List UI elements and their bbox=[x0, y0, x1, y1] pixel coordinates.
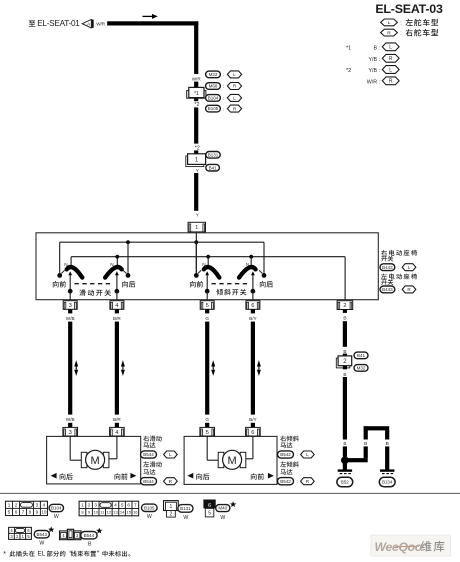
footer oval B543 bbox=[34, 526, 54, 546]
ground G1 bbox=[338, 471, 352, 474]
wire stub below pin 5 bbox=[205, 309, 209, 313]
wire stub above inline connector 1 bbox=[194, 150, 198, 154]
ground junction bbox=[341, 456, 349, 464]
pin 5 of power seat switch bbox=[200, 301, 214, 310]
wire color label B (below pin2) bbox=[343, 315, 346, 320]
wire color label B/Y (top) bbox=[249, 316, 257, 321]
slide motor symbol M bbox=[86, 450, 105, 469]
svg-text:14: 14 bbox=[120, 510, 125, 515]
footnote asterisk bbox=[3, 551, 130, 558]
slide motor pin 3 bbox=[63, 427, 78, 436]
junction on ground bus at pole4 bbox=[249, 255, 253, 259]
slide motor internal wire right bbox=[108, 436, 117, 458]
wire break arrows (G) bbox=[211, 360, 215, 376]
wire label *2 (upper) bbox=[195, 102, 200, 108]
badge R for left slide motor bbox=[164, 478, 178, 485]
wire color label B/R (bottom) bbox=[113, 417, 121, 422]
slide motor internal wire left bbox=[70, 436, 82, 460]
switch slide-back rocker arc bbox=[105, 267, 122, 278]
recline motor label backward bbox=[187, 473, 209, 480]
badge L for B104 bbox=[227, 94, 241, 101]
svg-text:1: 1 bbox=[81, 503, 84, 508]
svg-text:B544: B544 bbox=[143, 479, 154, 484]
svg-text:B131: B131 bbox=[180, 506, 191, 511]
slide motor terminal tabs bbox=[81, 452, 109, 467]
svg-text:L: L bbox=[233, 72, 236, 77]
svg-text::: : bbox=[398, 265, 399, 270]
branch wire right vertical (upper) bbox=[385, 430, 389, 439]
mechanical link slide bbox=[75, 283, 114, 285]
legend note W/R:R bbox=[367, 77, 399, 85]
switch recline-fwd output junction bbox=[205, 289, 210, 294]
switch slide-back contact (backward) bbox=[126, 273, 131, 278]
wire color label B (main, above junction) bbox=[343, 441, 346, 446]
inline connector 2 (B41/M32) bbox=[336, 356, 351, 368]
switch recline-fwd pivot feed from ground bus bbox=[207, 257, 209, 267]
svg-text:3: 3 bbox=[69, 430, 72, 436]
oval ground id B52 bbox=[337, 477, 353, 486]
wire B to junction dot bbox=[343, 446, 347, 456]
switch recline-back pivot feed from ground bus bbox=[250, 257, 252, 267]
wire color label B/Y (bottom) bbox=[249, 417, 257, 422]
svg-text:7: 7 bbox=[134, 503, 137, 508]
svg-text:2: 2 bbox=[170, 512, 173, 518]
svg-text::: : bbox=[297, 479, 298, 484]
switch slide-fwd contact feed wire bbox=[59, 242, 61, 273]
wire color label W/B (top) bbox=[66, 316, 75, 321]
wire break arrows (B/R) bbox=[121, 360, 125, 376]
oval connector id B542 (L) bbox=[278, 451, 298, 458]
wire label Y (upper) bbox=[196, 168, 199, 173]
switch recline-back output junction bbox=[251, 289, 256, 294]
label recline switch bbox=[216, 289, 246, 296]
label forward (slide) bbox=[53, 281, 66, 288]
label backward (recline) bbox=[260, 281, 273, 288]
svg-text:B542: B542 bbox=[280, 479, 291, 484]
badge R for M68 bbox=[227, 83, 241, 90]
legend note Y/B:R bbox=[369, 54, 400, 62]
switch slide-back contact feed wire bbox=[127, 242, 129, 273]
svg-text:B104: B104 bbox=[51, 506, 62, 511]
footer pinout connector B131 bbox=[164, 501, 179, 518]
recline motor symbol M bbox=[223, 450, 242, 469]
svg-text:R: R bbox=[389, 56, 393, 62]
label left slide motor bbox=[143, 461, 161, 474]
svg-text:B443: B443 bbox=[382, 265, 393, 270]
svg-text:B41: B41 bbox=[357, 353, 366, 358]
mechanical link recline bbox=[212, 283, 249, 285]
switch slide-back output wire to pin bbox=[116, 291, 118, 300]
svg-text:2: 2 bbox=[343, 303, 346, 309]
svg-text:Y: Y bbox=[196, 213, 199, 218]
switch recline-fwd output wire to pin bbox=[206, 291, 208, 300]
oval connector id B544 (R) bbox=[141, 478, 161, 485]
switch slide-fwd wiper tick bbox=[61, 270, 64, 273]
wire stub above motor pin 4 bbox=[115, 423, 119, 428]
switch recline-back output wire to pin bbox=[252, 291, 254, 300]
footer pinout connector B105 bbox=[79, 501, 138, 515]
wire color label B (branch left) bbox=[364, 441, 367, 446]
svg-text:9: 9 bbox=[36, 510, 39, 515]
svg-text:6: 6 bbox=[15, 510, 18, 515]
label forward (recline) bbox=[190, 281, 203, 288]
footer pinout connector M40 bbox=[203, 500, 215, 517]
recline motor box bbox=[184, 436, 277, 484]
svg-text:B: B bbox=[343, 315, 346, 320]
pin 4 of power seat switch bbox=[110, 301, 124, 310]
wire color label B (branch right) bbox=[386, 441, 389, 446]
svg-text:B: B bbox=[386, 441, 389, 446]
svg-text:B :: B : bbox=[374, 46, 380, 52]
svg-text:6: 6 bbox=[251, 303, 254, 309]
wire label W/R bbox=[192, 77, 202, 82]
svg-text:B134: B134 bbox=[382, 480, 393, 485]
wire stub below pin 4 bbox=[115, 309, 119, 313]
svg-text:5: 5 bbox=[206, 303, 209, 309]
slide motor label forward bbox=[115, 473, 137, 480]
pin 1 of power seat switch bbox=[188, 222, 205, 232]
svg-text:3: 3 bbox=[69, 303, 72, 309]
svg-text:M40: M40 bbox=[218, 506, 227, 511]
svg-text:B544: B544 bbox=[143, 452, 154, 457]
svg-text::: : bbox=[400, 31, 401, 37]
svg-text:B52: B52 bbox=[341, 480, 349, 485]
pin 2 of power seat switch bbox=[337, 301, 353, 310]
footer oval B131 bbox=[178, 505, 193, 521]
ground bus (horizontal) bbox=[71, 256, 345, 258]
connector *1 (M22/M68 to B104/B105) bbox=[187, 87, 206, 98]
svg-text:B: B bbox=[343, 372, 346, 377]
svg-text:4: 4 bbox=[43, 503, 46, 508]
label right power seat switch bbox=[381, 250, 417, 262]
svg-text:W/R :: W/R : bbox=[367, 79, 380, 85]
oval connector id B544 (L) bbox=[141, 451, 161, 458]
wire break arrows (W/B) bbox=[74, 360, 78, 376]
switch slide-fwd contact (forward) bbox=[57, 273, 62, 278]
branch wire right vertical (lower) bbox=[385, 446, 389, 470]
svg-text:7: 7 bbox=[22, 510, 25, 515]
svg-text:W: W bbox=[39, 540, 44, 546]
badge L for right recline motor bbox=[301, 451, 315, 458]
label left power seat switch bbox=[381, 273, 417, 285]
oval connector id B41 bbox=[206, 164, 220, 171]
footer oval B544 bbox=[81, 528, 103, 548]
svg-text:W/R: W/R bbox=[96, 21, 106, 26]
oval connector id B41 (conn2) bbox=[354, 352, 368, 359]
pin 3 of power seat switch bbox=[63, 301, 77, 310]
svg-text:*1: *1 bbox=[346, 46, 351, 52]
svg-text:M32: M32 bbox=[357, 366, 366, 371]
svg-text:12: 12 bbox=[107, 510, 112, 515]
svg-text:W/R: W/R bbox=[192, 77, 202, 82]
wire B junction to ground G1 bbox=[343, 462, 347, 471]
switch recline-fwd wiper tick bbox=[198, 270, 201, 273]
slide motor label backward bbox=[51, 473, 73, 480]
wire G to motor bbox=[205, 322, 209, 415]
switch recline-fwd contact (forward) bbox=[194, 273, 199, 278]
branch wire vertical (lower) bbox=[364, 446, 368, 458]
svg-text:Y/B :: Y/B : bbox=[369, 68, 380, 74]
switch recline-fwd rocker arc bbox=[204, 267, 220, 278]
label left recline motor bbox=[280, 461, 299, 474]
svg-text:M: M bbox=[228, 455, 237, 467]
svg-text:L: L bbox=[306, 452, 309, 457]
svg-text:8: 8 bbox=[29, 510, 32, 515]
supply bus (horizontal) bbox=[60, 241, 264, 243]
svg-text:W/B: W/B bbox=[66, 417, 75, 422]
junction on ground bus at pole2 bbox=[115, 255, 119, 259]
badge R for B105 bbox=[227, 105, 241, 112]
title EL-SEAT-03 bbox=[375, 2, 443, 16]
svg-text:L: L bbox=[388, 20, 391, 26]
reference 至 EL-SEAT-01 bbox=[29, 19, 81, 28]
svg-text:5: 5 bbox=[121, 503, 124, 508]
oval connector id B443 (upper) bbox=[380, 264, 399, 271]
wire color label G (bottom) bbox=[205, 417, 209, 422]
svg-text:1: 1 bbox=[170, 504, 173, 510]
svg-text:B105: B105 bbox=[208, 106, 219, 111]
slide motor box bbox=[47, 436, 141, 484]
svg-text:2: 2 bbox=[15, 503, 18, 508]
slide motor pin 4 bbox=[110, 427, 125, 436]
wire segment above connector *1 bbox=[194, 82, 198, 88]
wire color label W/R (top) bbox=[96, 21, 106, 26]
svg-text:16: 16 bbox=[133, 510, 138, 515]
switch recline-back contact (backward) bbox=[262, 273, 267, 278]
oval connector id B105 bbox=[206, 105, 225, 112]
branch wire vertical (upper) bbox=[364, 426, 368, 439]
recline motor internal wire left bbox=[207, 436, 219, 460]
footer oval B104 bbox=[49, 504, 63, 520]
svg-text:W/B: W/B bbox=[66, 316, 75, 321]
svg-text:2: 2 bbox=[88, 503, 91, 508]
label right slide motor bbox=[143, 436, 161, 448]
switch slide-back pivot feed from ground bus bbox=[116, 257, 118, 267]
svg-text:L: L bbox=[233, 96, 236, 101]
wire label Y (lower) bbox=[196, 213, 199, 218]
recline motor terminal tabs bbox=[218, 452, 246, 467]
label backward (slide) bbox=[122, 281, 135, 288]
wire W/B to motor bbox=[68, 322, 72, 415]
svg-text::: : bbox=[223, 96, 224, 101]
recline motor internal wire right bbox=[245, 436, 253, 458]
svg-text:R: R bbox=[387, 30, 391, 36]
switch slide-fwd output arrow bbox=[68, 271, 72, 289]
svg-text:5: 5 bbox=[8, 510, 11, 515]
svg-text:B542: B542 bbox=[280, 452, 291, 457]
junction on ground bus at pole3 bbox=[206, 255, 210, 259]
oval connector id M32 (conn2) bbox=[354, 365, 368, 372]
svg-text::: : bbox=[400, 20, 401, 26]
oval connector id B104 bbox=[206, 95, 225, 102]
recline motor pin 5 bbox=[200, 427, 215, 436]
svg-text::: : bbox=[223, 72, 224, 77]
switch slide-fwd output wire to pin bbox=[69, 291, 71, 300]
svg-text:B/R: B/R bbox=[113, 316, 121, 321]
svg-text::: : bbox=[223, 84, 224, 89]
svg-text:EL-SEAT-03: EL-SEAT-03 bbox=[375, 2, 443, 16]
svg-text:B/Y: B/Y bbox=[249, 316, 257, 321]
wire stub below pin 2 bbox=[343, 309, 347, 313]
svg-text:M: M bbox=[91, 455, 100, 467]
wire color label G (top) bbox=[205, 316, 209, 321]
legend badge R (RHD models) bbox=[381, 29, 402, 36]
svg-text::: : bbox=[297, 452, 298, 457]
wire color label B (above conn2) bbox=[343, 349, 346, 354]
svg-text:5: 5 bbox=[206, 430, 209, 436]
wire stub above connector 2 bbox=[343, 354, 347, 356]
footer pinout connector B544 bbox=[60, 529, 82, 539]
svg-text:13: 13 bbox=[113, 510, 118, 515]
wire stub above motor pin 5 bbox=[205, 423, 209, 428]
footer pinout connector B543 bbox=[9, 527, 32, 539]
switch recline-back contact feed wire bbox=[263, 242, 265, 273]
switch slide-back N label bbox=[110, 262, 113, 267]
ground bus drop to pin 2 bbox=[344, 257, 346, 300]
svg-text:B: B bbox=[88, 541, 92, 547]
recline motor label forward bbox=[251, 473, 274, 480]
switch recline-back N label bbox=[246, 262, 249, 267]
svg-text:M22: M22 bbox=[209, 72, 218, 77]
wire color label B/R (top) bbox=[113, 316, 121, 321]
label right recline motor bbox=[280, 436, 299, 448]
wire segment *2 color bbox=[194, 107, 198, 143]
wire pin1 to supply bus and pole3 contact bbox=[195, 233, 197, 273]
label slide switch bbox=[79, 289, 111, 296]
svg-text:10: 10 bbox=[41, 510, 47, 515]
svg-text:*2: *2 bbox=[195, 102, 200, 108]
svg-text:B543: B543 bbox=[37, 532, 48, 537]
switch slide-fwd rocker arc bbox=[67, 267, 83, 278]
legend text LHD bbox=[405, 19, 438, 26]
switch slide-back wiper tick bbox=[123, 270, 126, 273]
power seat switch box bbox=[36, 233, 378, 300]
wire stub below connector 2 bbox=[343, 366, 347, 370]
switch recline-fwd N label bbox=[202, 262, 205, 267]
wire stub below pin 6 bbox=[251, 309, 255, 313]
branch wire to second ground (horizontal) bbox=[346, 458, 368, 462]
switch slide-fwd N label bbox=[64, 262, 67, 267]
switch slide-fwd output junction bbox=[68, 289, 73, 294]
svg-text:W: W bbox=[220, 515, 225, 521]
switch slide-back output junction bbox=[115, 289, 120, 294]
svg-text:1: 1 bbox=[195, 225, 198, 231]
svg-text:B41: B41 bbox=[209, 165, 218, 170]
svg-text:3: 3 bbox=[94, 503, 97, 508]
svg-text:6: 6 bbox=[127, 503, 130, 508]
svg-text:B544: B544 bbox=[84, 533, 95, 538]
svg-text:B: B bbox=[343, 441, 346, 446]
wire B pin2 to connector 2 bbox=[343, 321, 347, 347]
footer separator line bbox=[0, 492, 460, 494]
wire B connector2 to junction bbox=[343, 377, 347, 440]
inline connector 1 (B131/B41) bbox=[186, 154, 206, 167]
wire B/Y to motor bbox=[251, 322, 255, 415]
switch recline-fwd output arrow bbox=[205, 271, 209, 289]
svg-text:3: 3 bbox=[36, 503, 39, 508]
svg-text:B/Y: B/Y bbox=[249, 417, 257, 422]
wire W/R vertical main feed bbox=[194, 21, 198, 74]
svg-text:6: 6 bbox=[251, 430, 254, 436]
svg-text:B104: B104 bbox=[208, 96, 219, 101]
svg-text:W: W bbox=[183, 515, 188, 521]
svg-text:W: W bbox=[54, 514, 59, 520]
footer oval M40 bbox=[216, 501, 237, 521]
oval connector id B131 bbox=[206, 152, 220, 159]
legend text RHD bbox=[406, 29, 439, 36]
wire segment Y color bbox=[194, 173, 198, 211]
junction on supply bus at pin1 feed bbox=[194, 240, 198, 244]
switch recline-back rocker arc bbox=[239, 267, 256, 278]
legend note *1 B:L bbox=[346, 43, 399, 52]
svg-text:L: L bbox=[389, 67, 392, 73]
pin 6 of power seat switch bbox=[246, 301, 260, 310]
svg-text:L: L bbox=[169, 452, 172, 457]
svg-text::: : bbox=[223, 106, 224, 111]
svg-text:1: 1 bbox=[8, 503, 11, 508]
wire label *2 (lower) bbox=[195, 145, 200, 151]
direction arrow (right) bbox=[143, 14, 158, 19]
wire B/R to motor bbox=[115, 322, 119, 415]
badge L for right seat switch bbox=[402, 264, 416, 271]
badge L for right slide motor bbox=[164, 451, 178, 458]
junction on supply bus at pole2 feed bbox=[126, 240, 130, 244]
svg-text::: : bbox=[160, 452, 161, 457]
badge R for left seat switch bbox=[402, 286, 416, 293]
svg-text:B443: B443 bbox=[382, 287, 393, 292]
svg-text:*: * bbox=[3, 551, 6, 558]
svg-text:B131: B131 bbox=[208, 152, 219, 157]
svg-text:5: 5 bbox=[208, 510, 211, 516]
svg-text:*1: *1 bbox=[194, 91, 199, 97]
wire stub below pin 3 bbox=[68, 309, 72, 313]
svg-text:Y/B :: Y/B : bbox=[369, 57, 380, 63]
svg-text:Y: Y bbox=[196, 168, 199, 173]
svg-text:M68: M68 bbox=[209, 84, 218, 89]
svg-text:L: L bbox=[408, 265, 411, 270]
svg-text:10: 10 bbox=[93, 510, 98, 515]
svg-text::: : bbox=[398, 287, 399, 292]
oval connector id M68 bbox=[206, 83, 225, 90]
oval connector id B443 (lower) bbox=[380, 286, 399, 293]
switch recline-back output arrow bbox=[251, 271, 255, 289]
svg-text:B105: B105 bbox=[144, 505, 155, 510]
wire stub above motor pin 6 bbox=[251, 423, 255, 428]
ground G2 bbox=[380, 471, 394, 474]
switch recline-fwd contact feed wire bbox=[195, 242, 197, 273]
svg-text:4: 4 bbox=[114, 503, 117, 508]
switch slide-back output arrow bbox=[115, 271, 119, 289]
wire W/R horizontal from EL-SEAT-01 bbox=[107, 21, 198, 25]
svg-text:G: G bbox=[205, 316, 209, 321]
switch recline-back wiper tick bbox=[259, 270, 262, 273]
oval connector id M22 bbox=[206, 71, 225, 78]
svg-text:15: 15 bbox=[126, 510, 131, 515]
legend badge L (LHD models) bbox=[381, 19, 402, 26]
oval ground id B134 bbox=[379, 477, 395, 486]
wire break arrows (B/Y) bbox=[257, 360, 261, 376]
svg-text:EL: EL bbox=[38, 551, 46, 558]
svg-text:L: L bbox=[389, 45, 392, 51]
svg-text:A: A bbox=[87, 22, 90, 27]
svg-text::: : bbox=[160, 479, 161, 484]
watermark WeeQoo bbox=[371, 535, 451, 556]
svg-text:B: B bbox=[364, 441, 367, 446]
wire stub below connector *1 bbox=[194, 98, 198, 101]
badge R for left recline motor bbox=[301, 478, 315, 485]
recline motor pin 6 bbox=[246, 427, 261, 436]
svg-text:G: G bbox=[205, 417, 209, 422]
